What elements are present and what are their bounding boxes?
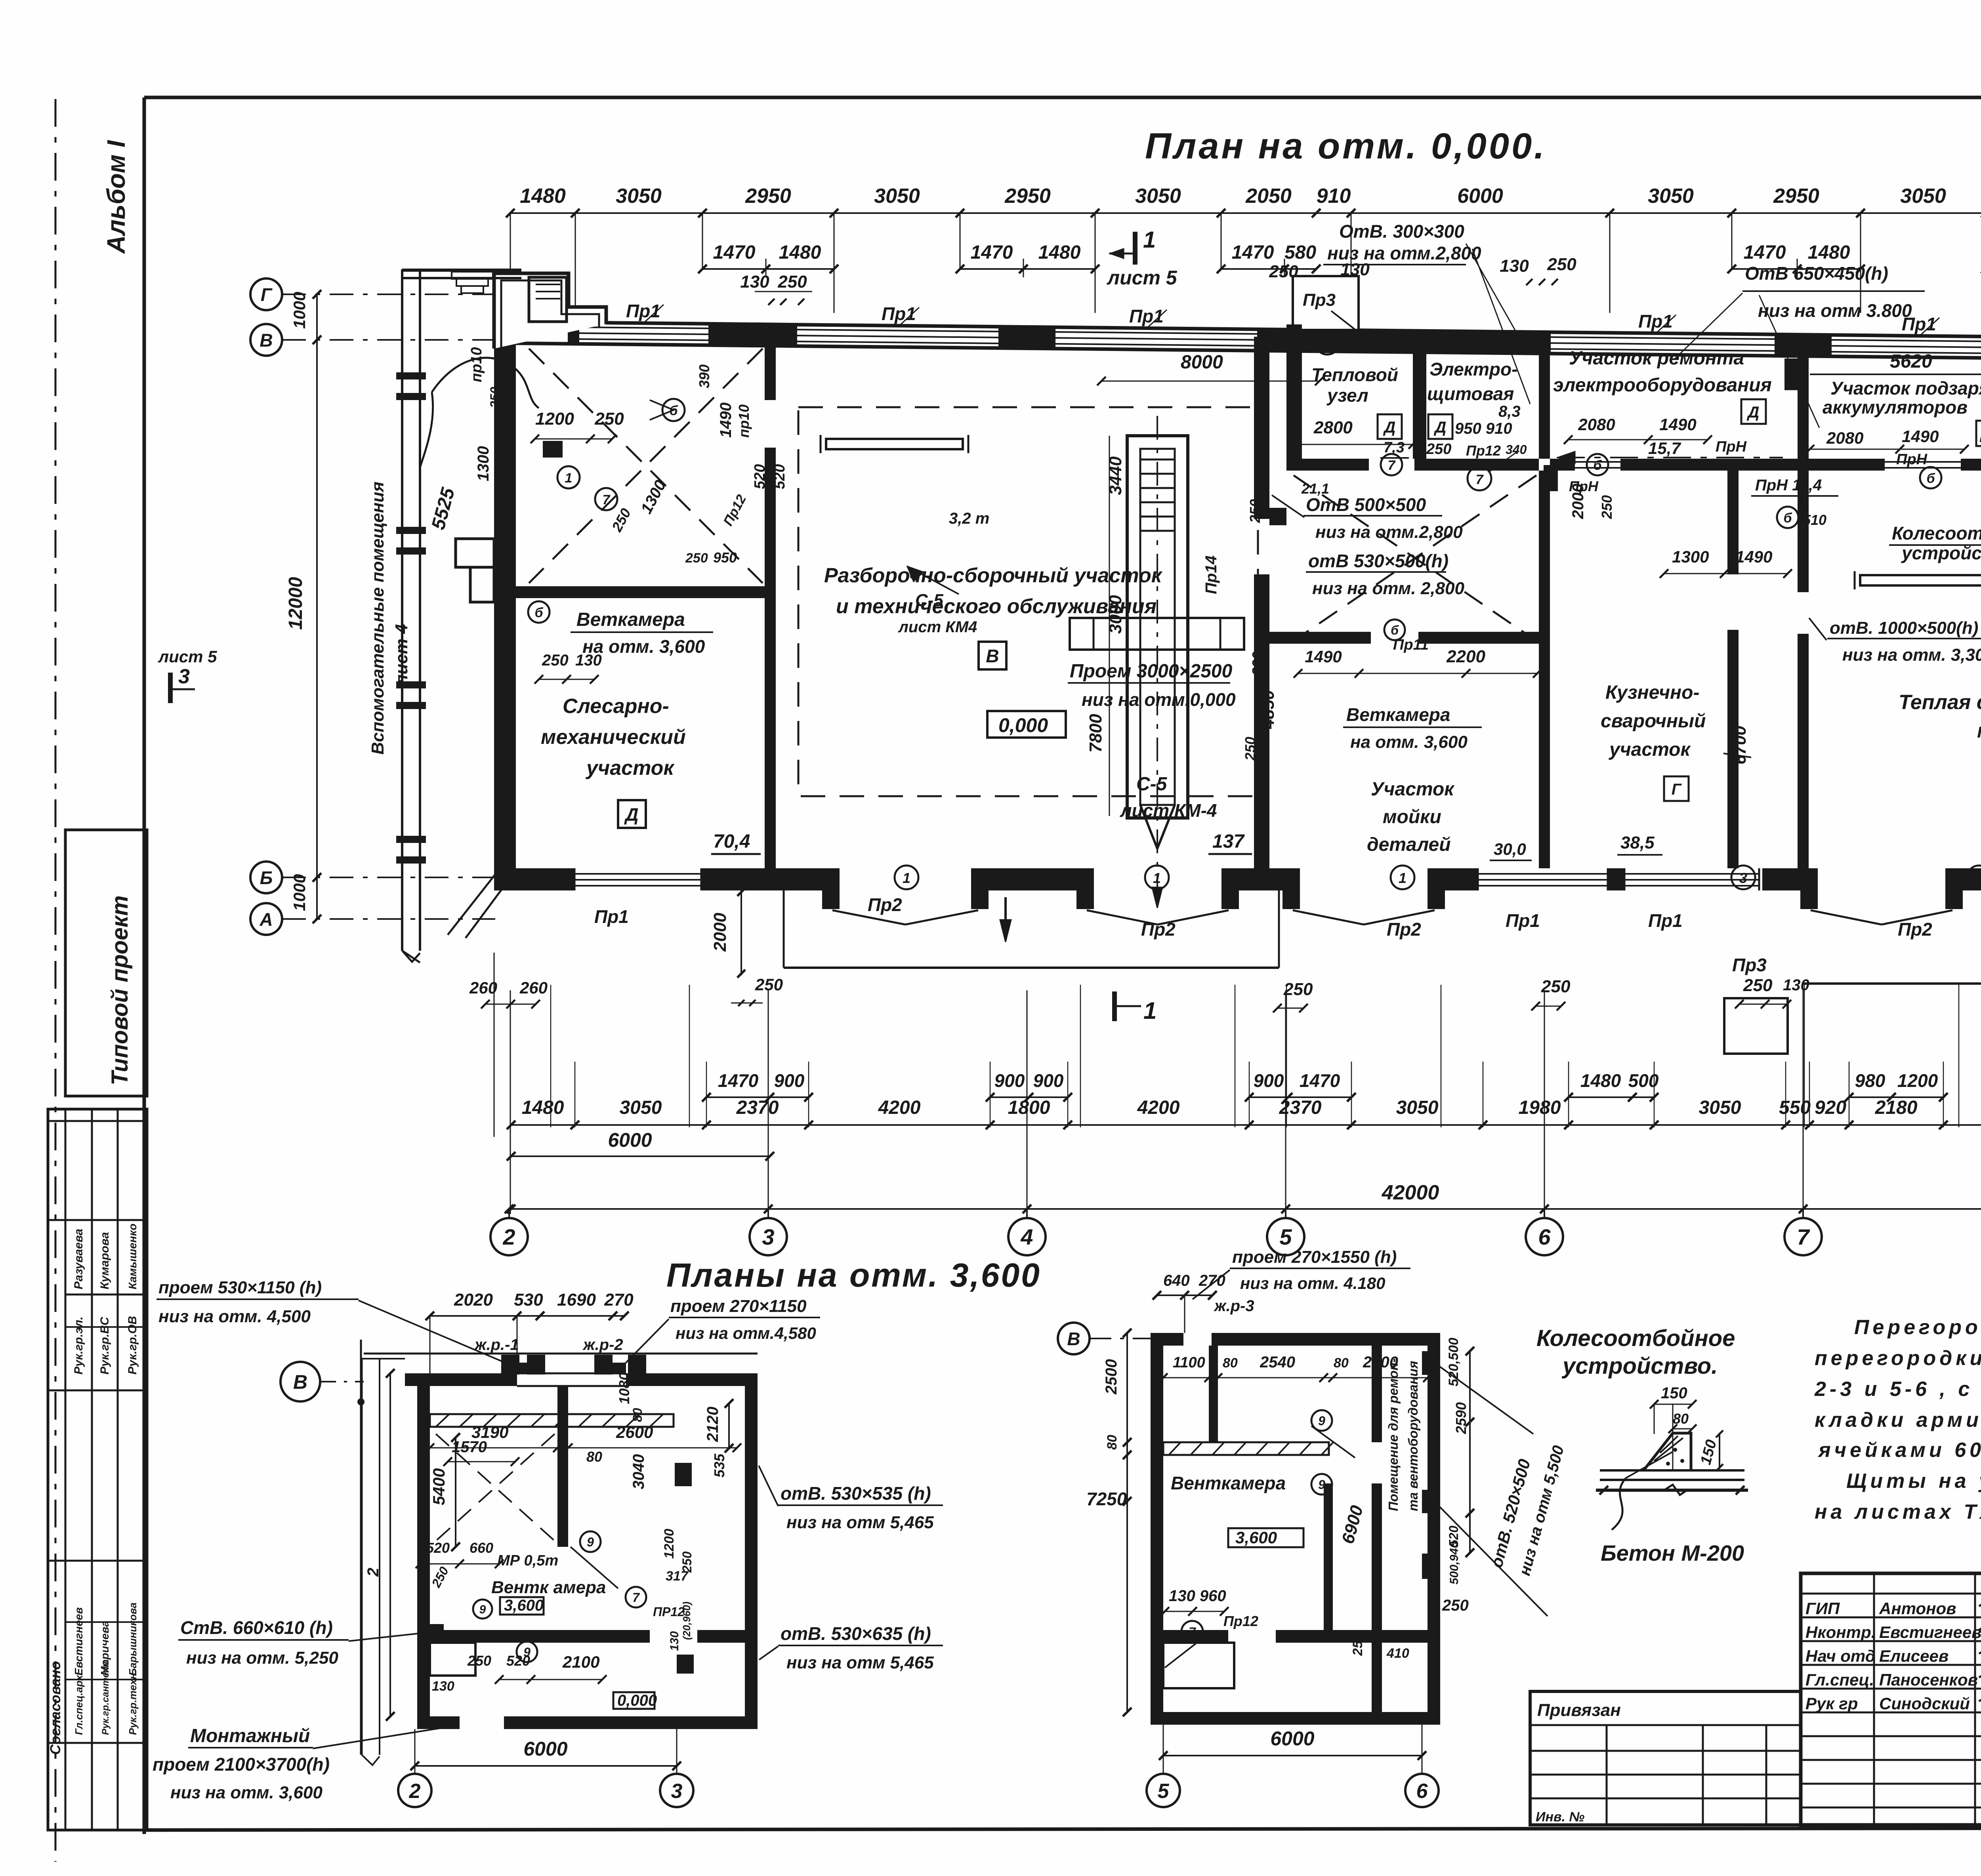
svg-text:250: 250	[594, 409, 624, 429]
svg-text:Пр1: Пр1	[1648, 910, 1683, 931]
svg-text:2050: 2050	[1245, 185, 1292, 208]
svg-text:ж.р.-1: ж.р.-1	[474, 1336, 519, 1354]
svg-text:5400: 5400	[429, 1468, 448, 1505]
svg-text:250: 250	[1426, 441, 1451, 458]
svg-text:А: А	[259, 909, 273, 930]
svg-text:980: 980	[1855, 1070, 1886, 1091]
svg-text:1080: 1080	[616, 1373, 632, 1404]
svg-text:Пр1: Пр1	[626, 301, 660, 321]
svg-text:Колесоотбойное: Колесоотбойное	[1892, 523, 1981, 543]
svg-text:План на отм. 0,000.: План на отм. 0,000.	[1145, 126, 1547, 166]
svg-text:130: 130	[1500, 256, 1529, 276]
svg-text:1480: 1480	[520, 185, 566, 208]
svg-text:1100: 1100	[1173, 1354, 1205, 1371]
svg-text:2: 2	[409, 1780, 421, 1803]
svg-text:1480: 1480	[779, 242, 821, 263]
svg-text:пр10: пр10	[736, 404, 752, 438]
svg-text:проем 270×1550 (h): проем 270×1550 (h)	[1232, 1247, 1397, 1267]
svg-text:сварочный: сварочный	[1601, 711, 1706, 732]
svg-text:3050: 3050	[616, 185, 662, 208]
svg-text:7: 7	[603, 492, 611, 507]
svg-text:Пр1: Пр1	[882, 303, 916, 324]
svg-text:2600: 2600	[616, 1423, 653, 1441]
svg-text:Привязан: Привязан	[1537, 1701, 1621, 1720]
svg-text:низ на отм. 2,800: низ на отм. 2,800	[1312, 579, 1464, 598]
svg-text:250: 250	[498, 434, 512, 456]
svg-text:250: 250	[1599, 495, 1615, 519]
svg-text:70,4: 70,4	[713, 831, 750, 852]
svg-text:4850: 4850	[1258, 690, 1278, 729]
svg-text:Паносенков: Паносенков	[1879, 1670, 1978, 1689]
svg-text:Вспомогательные помещения: Вспомогательные помещения	[368, 482, 387, 755]
svg-text:38,5: 38,5	[1620, 833, 1655, 852]
svg-text:отВ. 530×635 (h): отВ. 530×635 (h)	[781, 1623, 931, 1644]
svg-text:низ на отм 5,465: низ на отм 5,465	[786, 1653, 934, 1672]
svg-text:250: 250	[1247, 499, 1263, 523]
svg-text:Пр12: Пр12	[1223, 1613, 1258, 1629]
svg-text:3,2 т: 3,2 т	[949, 510, 989, 527]
svg-text:ОтВ. 300×300: ОтВ. 300×300	[1339, 221, 1464, 242]
svg-text:5: 5	[1279, 1224, 1292, 1249]
svg-text:9: 9	[1318, 1478, 1325, 1492]
svg-text:Рук.гр.ОВ: Рук.гр.ОВ	[126, 1316, 139, 1375]
svg-text:3050: 3050	[874, 185, 920, 208]
svg-text:6000: 6000	[1457, 185, 1503, 208]
svg-text:1: 1	[1143, 227, 1156, 253]
svg-text:низ на отм.2,800: низ на отм.2,800	[1327, 243, 1481, 263]
svg-text:250: 250	[1283, 980, 1313, 999]
svg-text:Г: Г	[261, 284, 273, 305]
svg-text:низ на отм. 4,500: низ на отм. 4,500	[158, 1307, 311, 1326]
svg-text:1490: 1490	[1735, 547, 1772, 566]
svg-text:ГИП: ГИП	[1805, 1599, 1840, 1618]
svg-text:340: 340	[1506, 442, 1527, 457]
svg-text:4200: 4200	[878, 1097, 921, 1118]
svg-text:Альбом I: Альбом I	[102, 140, 130, 254]
svg-text:500,940: 500,940	[1448, 1541, 1461, 1584]
svg-text:низ на отм 3.800: низ на отм 3.800	[1758, 300, 1912, 321]
svg-text:проем 2100×3700(h): проем 2100×3700(h)	[153, 1754, 330, 1775]
svg-text:1980: 1980	[1519, 1097, 1561, 1118]
svg-text:Монтажный: Монтажный	[190, 1725, 310, 1746]
svg-text:2000: 2000	[1569, 484, 1587, 519]
svg-text:Планы на отм. 3,600: Планы на отм. 3,600	[666, 1256, 1041, 1294]
svg-text:3050: 3050	[1135, 185, 1181, 208]
svg-text:Рук.гр.эл.: Рук.гр.эл.	[72, 1317, 85, 1375]
svg-text:3,600: 3,600	[1235, 1528, 1277, 1547]
svg-text:Д: Д	[624, 804, 638, 825]
svg-text:б: б	[534, 605, 543, 620]
svg-text:Тепловой: Тепловой	[1311, 364, 1398, 385]
svg-text:пр10: пр10	[468, 347, 485, 382]
svg-text:Пр3: Пр3	[1732, 955, 1767, 975]
svg-text:Кузнечно-: Кузнечно-	[1605, 682, 1699, 703]
svg-text:2020: 2020	[454, 1290, 493, 1310]
svg-text:250: 250	[1547, 255, 1576, 274]
svg-text:2200: 2200	[1446, 647, 1485, 666]
svg-text:Пр12: Пр12	[1466, 442, 1501, 459]
svg-text:1490: 1490	[1659, 415, 1696, 434]
svg-text:1470: 1470	[1300, 1070, 1340, 1091]
svg-text:1: 1	[1143, 997, 1157, 1024]
svg-text:устройство.: устройство.	[1561, 1353, 1718, 1379]
svg-text:Щиты на участке сварочных: Щиты на участке сварочных работ замаркир…	[1846, 1470, 1981, 1493]
svg-text:270: 270	[1199, 1272, 1225, 1289]
svg-text:низ на отм. 5,250: низ на отм. 5,250	[186, 1648, 338, 1668]
svg-text:Пр14: Пр14	[1202, 555, 1220, 594]
svg-text:5: 5	[1158, 1780, 1170, 1803]
svg-text:950 910: 950 910	[1455, 420, 1512, 437]
svg-text:80: 80	[586, 1449, 602, 1465]
svg-text:1200: 1200	[535, 409, 574, 429]
svg-text:низ на отм. 3,600: низ на отм. 3,600	[170, 1783, 323, 1802]
svg-text:отВ. 1000×500(h): отВ. 1000×500(h)	[1830, 618, 1978, 638]
svg-text:Рук.гр.ВС: Рук.гр.ВС	[98, 1316, 111, 1375]
svg-text:640: 640	[1163, 1272, 1190, 1289]
svg-text:Пр1: Пр1	[1638, 311, 1673, 332]
svg-text:250: 250	[467, 1653, 491, 1669]
svg-text:1480: 1480	[1808, 242, 1850, 263]
svg-text:1: 1	[565, 471, 573, 486]
svg-text:2500: 2500	[1103, 1359, 1120, 1395]
svg-text:Пр2: Пр2	[1898, 919, 1932, 940]
svg-text:лист КМ-4: лист КМ-4	[1120, 800, 1217, 821]
svg-text:9: 9	[479, 1603, 486, 1616]
svg-text:2: 2	[502, 1224, 515, 1249]
svg-text:отВ 530×500(h): отВ 530×500(h)	[1308, 551, 1449, 571]
svg-text:Пр1: Пр1	[594, 906, 629, 927]
svg-text:1300: 1300	[475, 446, 492, 481]
svg-text:ж.р-2: ж.р-2	[582, 1336, 623, 1354]
svg-text:Венткамера: Венткамера	[1171, 1473, 1286, 1493]
svg-text:6000: 6000	[608, 1129, 652, 1151]
svg-text:низ на отм.4,580: низ на отм.4,580	[676, 1324, 816, 1342]
svg-text:2200: 2200	[1363, 1354, 1398, 1371]
svg-text:3: 3	[178, 665, 190, 688]
svg-text:1470: 1470	[718, 1070, 759, 1091]
svg-text:б: б	[1391, 623, 1399, 637]
svg-text:мойки: мойки	[1383, 806, 1441, 827]
svg-text:3: 3	[671, 1780, 683, 1803]
svg-text:520: 520	[752, 464, 768, 489]
svg-text:Г: Г	[1672, 781, 1682, 798]
svg-text:2-3 и 5-6 , с отм. 5,600 ч: 2-3 и 5-6 , с отм. 5,600 через три ряда …	[1814, 1378, 1981, 1401]
svg-text:3: 3	[1323, 335, 1331, 352]
svg-text:7800: 7800	[1086, 714, 1105, 753]
svg-text:12000: 12000	[285, 577, 306, 630]
svg-text:Пр2: Пр2	[1141, 919, 1176, 940]
svg-text:С-5: С-5	[1136, 774, 1168, 795]
svg-text:Разуваева: Разуваева	[72, 1229, 85, 1289]
svg-text:на листах ТХ-4 и ТХ-6.: на листах ТХ-4 и ТХ-6.	[1815, 1500, 1981, 1523]
svg-text:2370: 2370	[736, 1097, 779, 1118]
svg-text:250: 250	[1242, 737, 1258, 761]
svg-text:низ на отм. 3,300: низ на отм. 3,300	[1842, 645, 1981, 665]
svg-text:Веткамера: Веткамера	[1346, 704, 1450, 725]
svg-text:520,500: 520,500	[1446, 1338, 1461, 1386]
svg-text:Участок: Участок	[1371, 779, 1455, 800]
svg-text:Перегородки толщиной - 250мм: Перегородки толщиной - 250мм по осям 3;5…	[1854, 1316, 1981, 1339]
svg-text:390: 390	[696, 364, 712, 388]
svg-text:410: 410	[1386, 1646, 1409, 1661]
svg-text:0,000: 0,000	[617, 1692, 657, 1709]
svg-text:Барышникова: Барышникова	[127, 1602, 139, 1676]
svg-text:2080: 2080	[1578, 415, 1615, 434]
svg-text:250: 250	[1442, 1597, 1469, 1614]
svg-text:2540: 2540	[1260, 1354, 1295, 1371]
svg-text:3050: 3050	[1900, 185, 1946, 208]
svg-text:900: 900	[1033, 1070, 1064, 1091]
svg-text:270: 270	[604, 1290, 634, 1310]
svg-text:Гл.спец.: Гл.спец.	[1805, 1670, 1874, 1689]
svg-text:250: 250	[542, 652, 569, 669]
svg-text:Д: Д	[1747, 404, 1760, 421]
svg-text:660: 660	[469, 1540, 493, 1556]
svg-text:390: 390	[503, 542, 518, 564]
svg-text:низ на отм.2,800: низ на отм.2,800	[1315, 522, 1463, 542]
svg-text:Бетон М-200: Бетон М-200	[1601, 1540, 1744, 1565]
svg-text:2950: 2950	[1004, 185, 1051, 208]
svg-text:низ на отм. 4.180: низ на отм. 4.180	[1240, 1274, 1385, 1293]
svg-text:6000: 6000	[1270, 1727, 1314, 1750]
svg-text:участок: участок	[1609, 739, 1691, 760]
svg-text:Пр1: Пр1	[1902, 314, 1936, 334]
svg-text:Помещение для ремон-: Помещение для ремон-	[1386, 1358, 1401, 1511]
svg-text:Кумарова: Кумарова	[98, 1232, 111, 1289]
svg-text:б: б	[1593, 458, 1602, 473]
svg-text:900: 900	[1254, 1070, 1284, 1091]
svg-text:Моричева: Моричева	[99, 1621, 111, 1676]
svg-text:9: 9	[587, 1535, 594, 1549]
svg-text:на отм. 3,600: на отм. 3,600	[1350, 732, 1468, 752]
svg-text:Нконтр.: Нконтр.	[1805, 1623, 1876, 1641]
svg-text:250: 250	[685, 551, 708, 566]
svg-text:Камышенко: Камышенко	[126, 1224, 139, 1289]
svg-text:2950: 2950	[1773, 185, 1819, 208]
svg-text:260: 260	[519, 978, 548, 997]
svg-text:130 960: 130 960	[1169, 1587, 1226, 1605]
svg-text:4: 4	[1020, 1224, 1033, 1249]
svg-text:щитовая: щитовая	[1427, 383, 1514, 404]
svg-text:3050: 3050	[1699, 1097, 1741, 1118]
svg-text:130: 130	[740, 272, 769, 292]
svg-text:Елисеев: Елисеев	[1879, 1647, 1949, 1665]
svg-text:деталей: деталей	[1367, 834, 1451, 855]
svg-text:1480: 1480	[1038, 242, 1081, 263]
svg-text:ПР12: ПР12	[653, 1605, 685, 1619]
svg-text:низ на отм.0,000: низ на отм.0,000	[1082, 689, 1236, 710]
svg-text:1690: 1690	[557, 1290, 596, 1310]
svg-text:3050: 3050	[1396, 1097, 1439, 1118]
svg-text:1490: 1490	[1305, 647, 1342, 666]
svg-text:проем 530×1150 (h): проем 530×1150 (h)	[158, 1278, 322, 1297]
svg-text:15,7: 15,7	[1648, 439, 1681, 458]
svg-text:950: 950	[713, 549, 737, 566]
svg-text:ПрН 11,4: ПрН 11,4	[1755, 477, 1822, 494]
svg-text:Участок ремонта: Участок ремонта	[1569, 348, 1744, 369]
svg-text:Проем 3000×2500: Проем 3000×2500	[1070, 661, 1233, 682]
svg-text:кладки армировать сетками и: кладки армировать сетками из проволоки ф…	[1815, 1409, 1981, 1432]
svg-text:лист 4: лист 4	[392, 624, 411, 686]
svg-text:250: 250	[1743, 976, 1773, 995]
svg-text:250: 250	[488, 387, 502, 408]
svg-text:Пр1: Пр1	[1506, 910, 1540, 931]
svg-text:1800: 1800	[1008, 1097, 1050, 1118]
svg-text:9: 9	[1318, 1414, 1325, 1428]
svg-text:Рук гр: Рук гр	[1805, 1694, 1858, 1713]
svg-text:Рук.гр.техн.: Рук.гр.техн.	[127, 1670, 139, 1735]
svg-text:1000: 1000	[290, 292, 309, 329]
svg-text:42000: 42000	[1382, 1181, 1439, 1204]
svg-text:550: 550	[1779, 1097, 1811, 1118]
svg-text:2590: 2590	[1453, 1402, 1469, 1434]
svg-text:2080: 2080	[1826, 429, 1863, 447]
svg-text:7: 7	[1797, 1224, 1810, 1249]
svg-text:6000: 6000	[523, 1738, 567, 1760]
svg-text:2120: 2120	[704, 1407, 721, 1442]
svg-text:перегородки , ограждающие вен: перегородки , ограждающие венткамеры меж…	[1815, 1347, 1981, 1370]
svg-text:80: 80	[630, 1408, 645, 1422]
svg-text:механический: механический	[541, 726, 686, 749]
svg-text:520: 520	[771, 464, 788, 489]
svg-text:ж.р-3: ж.р-3	[1214, 1297, 1254, 1315]
svg-text:Слесарно-: Слесарно-	[563, 695, 669, 718]
svg-text:150: 150	[1661, 1384, 1687, 1402]
svg-text:510: 510	[1803, 512, 1826, 528]
svg-text:900: 900	[994, 1070, 1025, 1091]
svg-text:2950: 2950	[745, 185, 791, 208]
svg-text:3190: 3190	[471, 1423, 508, 1441]
svg-text:машин: машин	[1977, 719, 1981, 742]
svg-text:1: 1	[1399, 870, 1407, 886]
svg-text:ячейками 60×60 с запуском: ячейками 60×60 с запуском в поперечные с…	[1817, 1439, 1981, 1462]
svg-text:0,000: 0,000	[998, 714, 1048, 736]
svg-text:узел: узел	[1326, 385, 1368, 406]
svg-text:Гл.спец.арх.: Гл.спец.арх.	[73, 1672, 85, 1735]
svg-text:920: 920	[1815, 1097, 1846, 1118]
svg-text:ПрН: ПрН	[1716, 438, 1747, 455]
svg-text:Согласовано: Согласовано	[47, 1661, 63, 1755]
svg-text:та вентоборудования: та вентоборудования	[1406, 1361, 1420, 1512]
svg-text:Участок подзарядки: Участок подзарядки	[1830, 378, 1981, 398]
svg-text:лист 5: лист 5	[1107, 267, 1178, 289]
svg-text:1480: 1480	[1580, 1070, 1621, 1091]
svg-text:535: 535	[711, 1453, 727, 1478]
svg-text:1300: 1300	[1672, 547, 1709, 566]
svg-text:6: 6	[1416, 1780, 1428, 1803]
svg-text:1490: 1490	[1902, 427, 1939, 446]
svg-text:250: 250	[1541, 977, 1571, 996]
svg-text:6: 6	[1538, 1224, 1551, 1249]
svg-text:5620: 5620	[1890, 351, 1932, 372]
svg-text:Синодский: Синодский	[1879, 1694, 1970, 1713]
svg-text:30,0: 30,0	[1494, 840, 1526, 858]
svg-text:Б: Б	[260, 867, 273, 888]
svg-text:250: 250	[1350, 1633, 1365, 1656]
svg-text:Инв. №: Инв. №	[1536, 1809, 1584, 1825]
svg-text:3050: 3050	[1648, 185, 1694, 208]
svg-text:электрооборудования: электрооборудования	[1553, 375, 1772, 396]
svg-text:1480: 1480	[522, 1097, 564, 1118]
svg-text:б: б	[1926, 471, 1935, 486]
svg-text:Электро-: Электро-	[1429, 359, 1517, 379]
svg-text:проем 270×1150: проем 270×1150	[670, 1296, 807, 1316]
svg-text:1: 1	[1153, 870, 1161, 886]
svg-text:7: 7	[1476, 472, 1484, 487]
svg-text:ОтВ 650×450(h): ОтВ 650×450(h)	[1745, 263, 1888, 284]
svg-text:Д: Д	[1383, 419, 1396, 436]
svg-text:Д: Д	[1434, 419, 1447, 436]
svg-text:В: В	[293, 1371, 307, 1393]
svg-text:Евстигнеев: Евстигнеев	[1879, 1623, 1981, 1641]
svg-text:2000: 2000	[710, 913, 730, 952]
svg-text:1200: 1200	[1897, 1070, 1938, 1091]
svg-text:лист КМ4: лист КМ4	[898, 618, 977, 636]
svg-text:21,1: 21,1	[1301, 480, 1329, 497]
svg-text:ПрН: ПрН	[1896, 451, 1928, 468]
svg-text:130: 130	[668, 1631, 681, 1651]
svg-text:260: 260	[469, 978, 497, 997]
svg-text:1000: 1000	[290, 874, 309, 911]
svg-text:900: 900	[774, 1070, 805, 1091]
svg-text:участок: участок	[585, 757, 675, 780]
svg-text:250: 250	[755, 975, 783, 994]
svg-text:Антонов: Антонов	[1879, 1599, 1956, 1618]
svg-text:3050: 3050	[620, 1097, 662, 1118]
svg-text:Пр3: Пр3	[1303, 290, 1336, 310]
svg-text:Пр2: Пр2	[868, 894, 902, 915]
svg-text:130: 130	[1783, 976, 1809, 994]
svg-text:Типовой проект: Типовой проект	[107, 895, 133, 1085]
svg-text:1470: 1470	[971, 242, 1013, 263]
svg-text:137: 137	[1212, 831, 1245, 852]
svg-text:80: 80	[1105, 1435, 1120, 1450]
svg-text:С-5: С-5	[915, 591, 943, 610]
svg-text:В: В	[986, 646, 999, 666]
svg-text:Вентк амера: Вентк амера	[491, 1578, 606, 1597]
svg-text:3440: 3440	[1106, 456, 1125, 495]
svg-text:7250: 7250	[1086, 1489, 1127, 1509]
svg-text:2800: 2800	[1313, 418, 1353, 437]
svg-text:аккумуляторов: аккумуляторов	[1823, 397, 1968, 418]
svg-text:520: 520	[506, 1653, 530, 1669]
svg-text:130: 130	[575, 652, 602, 669]
svg-text:1490: 1490	[717, 402, 735, 438]
svg-text:МР 0,5т: МР 0,5т	[497, 1552, 558, 1569]
svg-text:7: 7	[632, 1590, 640, 1605]
svg-text:3,600: 3,600	[504, 1597, 544, 1614]
svg-text:отВ. 530×535 (h): отВ. 530×535 (h)	[781, 1483, 931, 1504]
svg-text:1: 1	[903, 870, 910, 886]
svg-text:(20,960): (20,960)	[681, 1601, 693, 1640]
svg-text:В: В	[1067, 1329, 1080, 1349]
svg-text:3: 3	[762, 1224, 774, 1249]
svg-text:7: 7	[1189, 1625, 1197, 1639]
svg-text:580: 580	[1284, 242, 1316, 263]
svg-text:8,3: 8,3	[1498, 403, 1521, 420]
svg-text:Разборочно-сборочный участок: Разборочно-сборочный участок	[824, 564, 1163, 587]
svg-text:Веткамера: Веткамера	[576, 609, 685, 630]
svg-text:2100: 2100	[562, 1653, 599, 1671]
svg-text:Теплая стоянка: Теплая стоянка	[1899, 691, 1981, 714]
svg-text:Евстигнеев: Евстигнеев	[73, 1607, 85, 1676]
svg-text:3: 3	[1739, 870, 1747, 886]
svg-text:80: 80	[1223, 1356, 1238, 1371]
svg-text:б: б	[1783, 511, 1792, 526]
svg-text:лист 5: лист 5	[158, 647, 217, 666]
svg-text:130: 130	[432, 1679, 454, 1694]
svg-text:3040: 3040	[630, 1454, 647, 1489]
